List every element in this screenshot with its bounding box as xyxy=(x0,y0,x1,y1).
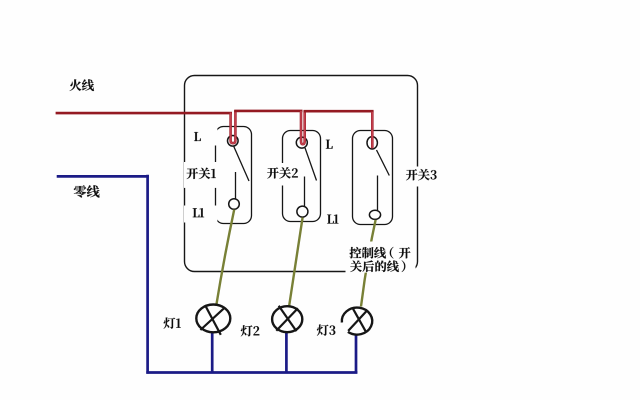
switch 开关3 body box xyxy=(353,131,393,225)
switch enclosure box (3-gang switch panel) xyxy=(185,76,418,272)
switch1 fixed contact line xyxy=(235,172,237,199)
label backbox L switch1 xyxy=(188,128,217,146)
label 灯2 (lamp 2) xyxy=(241,325,260,336)
label 控制线（开 note line 1 xyxy=(350,247,411,259)
switch2 lever (moving contact) xyxy=(305,148,317,181)
wire: live 火线 horizontal feed segment 1 xyxy=(56,112,232,115)
wire: lamp1 neutral drop xyxy=(211,333,214,373)
switch 开关2 body box xyxy=(283,131,321,222)
label pin L1 of switch2 xyxy=(327,214,338,223)
label pin L of switch2 xyxy=(326,140,333,149)
label backbox 开关2 xyxy=(260,163,297,186)
wire: neutral 零线 horizontal segment xyxy=(57,175,149,178)
wire: live horizontal feed segment 2 xyxy=(234,110,302,113)
label pin L of switch1 xyxy=(194,132,201,141)
switch 开关1 body box xyxy=(216,127,252,224)
lamp 灯3 bulb circle (open at lower-left) xyxy=(342,308,372,335)
switch1 terminal L1 xyxy=(229,199,240,210)
label backbox 开关1 xyxy=(184,162,217,188)
label 灯1 (lamp 1) xyxy=(164,318,181,329)
wire: lamp3 neutral drop xyxy=(355,335,358,374)
wire: live drop into switch3 terminal L xyxy=(371,111,374,148)
wire: control line switch1 L1 to lamp1 xyxy=(216,210,234,306)
lamp 灯1 cross stroke B xyxy=(200,307,225,330)
label 开关2 (switch 2) xyxy=(267,167,298,178)
label backbox 开关3 xyxy=(403,167,435,187)
label 开关3 (switch 3) xyxy=(406,169,437,180)
wire: neutral bottom bus xyxy=(146,371,357,374)
wire: control line switch2 L1 to lamp2 xyxy=(289,217,303,307)
switch2 terminal L xyxy=(296,137,307,148)
lamp 灯1 cross stroke A xyxy=(205,305,221,335)
switch3 terminal L1 xyxy=(369,210,380,219)
lamp 灯3 cross stroke A xyxy=(353,309,366,332)
label 灯3 (lamp 3) xyxy=(317,325,335,336)
switch3 terminal L xyxy=(367,137,377,149)
lamp 灯3 cross stroke B xyxy=(348,311,366,331)
switch3 lever (moving contact) xyxy=(377,150,390,176)
wire: live drop loop into switch1 terminal L xyxy=(231,110,236,143)
wire: live horizontal feed segment 3 xyxy=(304,110,374,113)
label 关后的线） note line 2 xyxy=(350,260,405,272)
switch1 lever (moving contact) xyxy=(234,147,249,182)
lamp 灯1 bulb circle xyxy=(196,305,230,333)
wire: control line switch3 L1 to lamp3 (控制线) xyxy=(361,220,376,307)
label 开关1 (switch 1) xyxy=(187,168,216,179)
label pin L1 of switch1 xyxy=(193,208,204,217)
wire: lamp2 neutral drop xyxy=(285,332,288,373)
switch3 fixed contact line xyxy=(377,176,379,211)
lamp 灯2 cross stroke A xyxy=(279,306,297,332)
label backbox L1 switch1 xyxy=(184,206,217,223)
label 火线 (live wire) xyxy=(70,79,94,91)
switch1 terminal L xyxy=(228,136,239,147)
lamp 灯2 cross stroke B xyxy=(276,308,298,331)
wire: live drop loop into switch2 terminal L xyxy=(301,111,305,145)
switch2 fixed contact line xyxy=(304,177,306,207)
wire: neutral vertical bus xyxy=(146,175,149,374)
label backbox 控制线 note xyxy=(346,242,416,273)
switch2 terminal L1 xyxy=(297,206,308,217)
lamp 灯2 bulb circle xyxy=(272,306,302,332)
label 零线 (neutral wire) xyxy=(74,185,100,197)
